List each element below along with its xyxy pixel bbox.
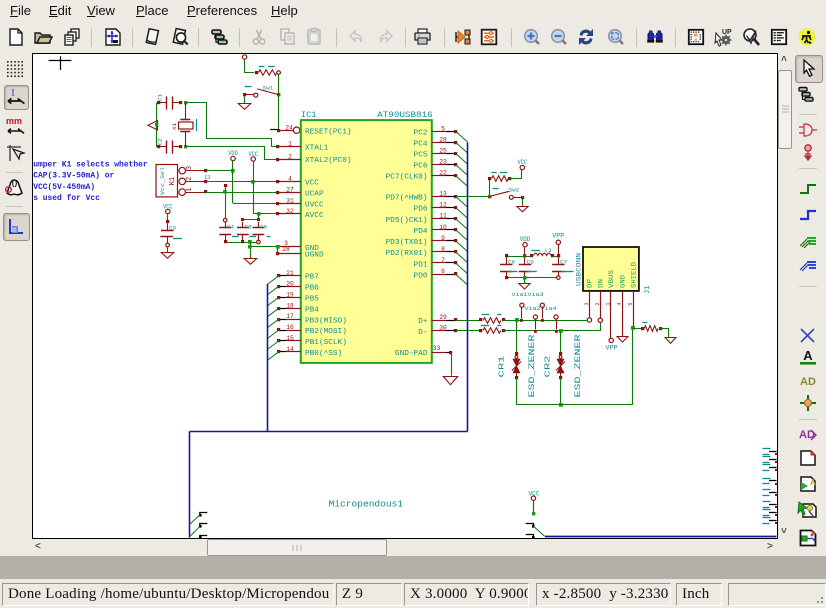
svg-text:CR2: CR2 bbox=[545, 356, 553, 378]
svg-text:VCC: VCC bbox=[518, 159, 528, 166]
svg-text:23: 23 bbox=[439, 159, 447, 166]
svg-text:12: 12 bbox=[439, 202, 447, 209]
svg-text:31: 31 bbox=[286, 197, 294, 204]
svg-text:PC5: PC5 bbox=[414, 152, 428, 160]
svg-text:PD1: PD1 bbox=[414, 261, 428, 269]
svg-text:C7: C7 bbox=[560, 259, 567, 266]
svg-text:I: I bbox=[11, 88, 15, 99]
svg-text:C9: C9 bbox=[527, 259, 534, 266]
svg-text:PD2(RX01): PD2(RX01) bbox=[386, 250, 428, 258]
svg-text:Micropendous1: Micropendous1 bbox=[329, 499, 404, 510]
svg-text:22: 22 bbox=[439, 170, 447, 177]
svg-text:C1: C1 bbox=[157, 94, 164, 101]
svg-text:1: 1 bbox=[288, 141, 292, 148]
svg-text:VPP: VPP bbox=[552, 232, 564, 239]
svg-text:1: 1 bbox=[186, 187, 194, 191]
svg-text:3: 3 bbox=[186, 166, 194, 170]
svg-text:D-: D- bbox=[418, 329, 427, 337]
svg-text:16: 16 bbox=[286, 324, 294, 331]
svg-text:4: 4 bbox=[617, 302, 623, 305]
svg-text:6: 6 bbox=[441, 268, 445, 275]
svg-text:PB4: PB4 bbox=[305, 306, 319, 314]
svg-text:C2: C2 bbox=[157, 138, 164, 145]
svg-text:29: 29 bbox=[439, 314, 447, 321]
svg-text:7: 7 bbox=[441, 257, 445, 264]
svg-text:A: A bbox=[803, 348, 813, 363]
svg-text:AT90USB816: AT90USB816 bbox=[377, 112, 433, 120]
svg-text:10: 10 bbox=[439, 224, 447, 231]
svg-text:17: 17 bbox=[286, 313, 294, 320]
svg-text:28: 28 bbox=[282, 246, 290, 253]
svg-text:K1: K1 bbox=[169, 177, 177, 185]
svg-text:20: 20 bbox=[286, 280, 294, 287]
svg-text:18: 18 bbox=[286, 302, 294, 309]
svg-text:CAP(3.3V-50mA) or: CAP(3.3V-50mA) or bbox=[33, 172, 114, 181]
svg-text:PC2: PC2 bbox=[414, 130, 428, 138]
svg-text:RESET(PC1): RESET(PC1) bbox=[305, 129, 352, 137]
svg-text:PB2(MOSI): PB2(MOSI) bbox=[305, 328, 347, 336]
svg-text:L3: L3 bbox=[545, 248, 551, 254]
svg-text:PD6: PD6 bbox=[414, 206, 428, 214]
svg-text:PB5: PB5 bbox=[305, 295, 319, 303]
svg-text:5: 5 bbox=[628, 302, 634, 305]
svg-text:D+: D+ bbox=[418, 318, 427, 326]
svg-text:C6: C6 bbox=[508, 259, 515, 266]
svg-text:2: 2 bbox=[595, 302, 601, 305]
svg-text:4: 4 bbox=[288, 175, 292, 182]
svg-text:PD7(^HWB): PD7(^HWB) bbox=[386, 194, 428, 203]
svg-text:PC7(CLK0): PC7(CLK0) bbox=[386, 174, 428, 182]
svg-text:PC4: PC4 bbox=[414, 141, 428, 149]
svg-text:Via2Via4: Via2Via4 bbox=[525, 306, 557, 312]
svg-text:PB0(^SS): PB0(^SS) bbox=[305, 349, 342, 358]
svg-text:s used for Vcc: s used for Vcc bbox=[33, 194, 100, 203]
svg-text:30: 30 bbox=[439, 325, 447, 332]
svg-text:AD: AD bbox=[800, 376, 816, 388]
svg-text:PD5()CK1): PD5()CK1) bbox=[386, 217, 428, 225]
svg-text:2: 2 bbox=[288, 153, 292, 160]
svg-text:8: 8 bbox=[441, 246, 445, 253]
svg-text:AVCC: AVCC bbox=[305, 212, 324, 220]
svg-text:2: 2 bbox=[186, 177, 194, 181]
svg-text:32: 32 bbox=[286, 208, 294, 215]
svg-text:GND-PAD: GND-PAD bbox=[395, 350, 428, 358]
svg-text:VBUS: VBUS bbox=[608, 270, 615, 288]
svg-text:DP: DP bbox=[586, 279, 593, 288]
svg-text:umper K1 selects whether: umper K1 selects whether bbox=[33, 161, 148, 170]
svg-text:C8: C8 bbox=[245, 223, 252, 230]
svg-text:VPP: VPP bbox=[606, 345, 618, 352]
svg-text:19: 19 bbox=[286, 291, 294, 298]
svg-text:C3: C3 bbox=[169, 224, 176, 231]
svg-text:XTAL2(PC0): XTAL2(PC0) bbox=[305, 157, 352, 165]
svg-text:A: A bbox=[810, 478, 816, 487]
svg-text:UP: UP bbox=[722, 29, 732, 36]
svg-text:PB7: PB7 bbox=[305, 273, 319, 281]
svg-text:USBCONN: USBCONN bbox=[576, 253, 583, 286]
svg-text:mm: mm bbox=[6, 116, 22, 126]
svg-text:CR1: CR1 bbox=[499, 355, 507, 378]
svg-text:PD4: PD4 bbox=[414, 228, 428, 236]
svg-text:X1: X1 bbox=[171, 123, 178, 130]
svg-text:11: 11 bbox=[439, 213, 447, 220]
svg-text:XTAL1: XTAL1 bbox=[305, 145, 328, 153]
svg-text:PD3(TX01): PD3(TX01) bbox=[386, 239, 428, 247]
svg-text:UVCC: UVCC bbox=[305, 201, 324, 209]
svg-text:DN: DN bbox=[598, 279, 605, 288]
svg-text:SHIELD: SHIELD bbox=[630, 262, 637, 288]
svg-text:24: 24 bbox=[285, 124, 293, 131]
svg-text:GND: GND bbox=[620, 275, 627, 288]
svg-text:28: 28 bbox=[439, 136, 447, 143]
svg-text:VCC: VCC bbox=[305, 179, 319, 187]
svg-text:Sw2: Sw2 bbox=[509, 187, 520, 194]
svg-text:PC6: PC6 bbox=[414, 163, 428, 171]
svg-text:Sw1: Sw1 bbox=[263, 84, 274, 91]
svg-text:PD0: PD0 bbox=[414, 272, 428, 280]
svg-text:Via1Via3: Via1Via3 bbox=[512, 292, 544, 298]
svg-text:UGND: UGND bbox=[305, 252, 324, 260]
svg-text:UCAP: UCAP bbox=[305, 190, 324, 198]
svg-text:27: 27 bbox=[286, 186, 294, 193]
svg-text:PB1(SCLK): PB1(SCLK) bbox=[305, 339, 347, 347]
svg-text:PB6: PB6 bbox=[305, 284, 319, 292]
svg-text:C4: C4 bbox=[227, 223, 234, 230]
svg-text:J1: J1 bbox=[644, 286, 652, 294]
svg-text:PB3(MISO): PB3(MISO) bbox=[305, 317, 347, 325]
svg-text:13: 13 bbox=[439, 191, 447, 198]
svg-text:5: 5 bbox=[441, 125, 445, 132]
svg-text:25: 25 bbox=[439, 148, 447, 155]
svg-text:ESD_ZENER: ESD_ZENER bbox=[528, 334, 537, 397]
svg-text:II: II bbox=[204, 174, 211, 181]
svg-text:15: 15 bbox=[286, 335, 294, 342]
svg-text:21: 21 bbox=[286, 270, 294, 277]
svg-text:IC1: IC1 bbox=[301, 112, 317, 120]
svg-text:ESD_ZENER: ESD_ZENER bbox=[574, 334, 583, 397]
svg-text:C5: C5 bbox=[260, 223, 267, 230]
svg-text:Vcc_Sel: Vcc_Sel bbox=[160, 167, 166, 195]
svg-text:9: 9 bbox=[441, 235, 445, 242]
svg-text:33: 33 bbox=[433, 345, 441, 352]
svg-text:VCC(5V-450mA): VCC(5V-450mA) bbox=[33, 183, 95, 192]
svg-text:14: 14 bbox=[286, 346, 294, 353]
